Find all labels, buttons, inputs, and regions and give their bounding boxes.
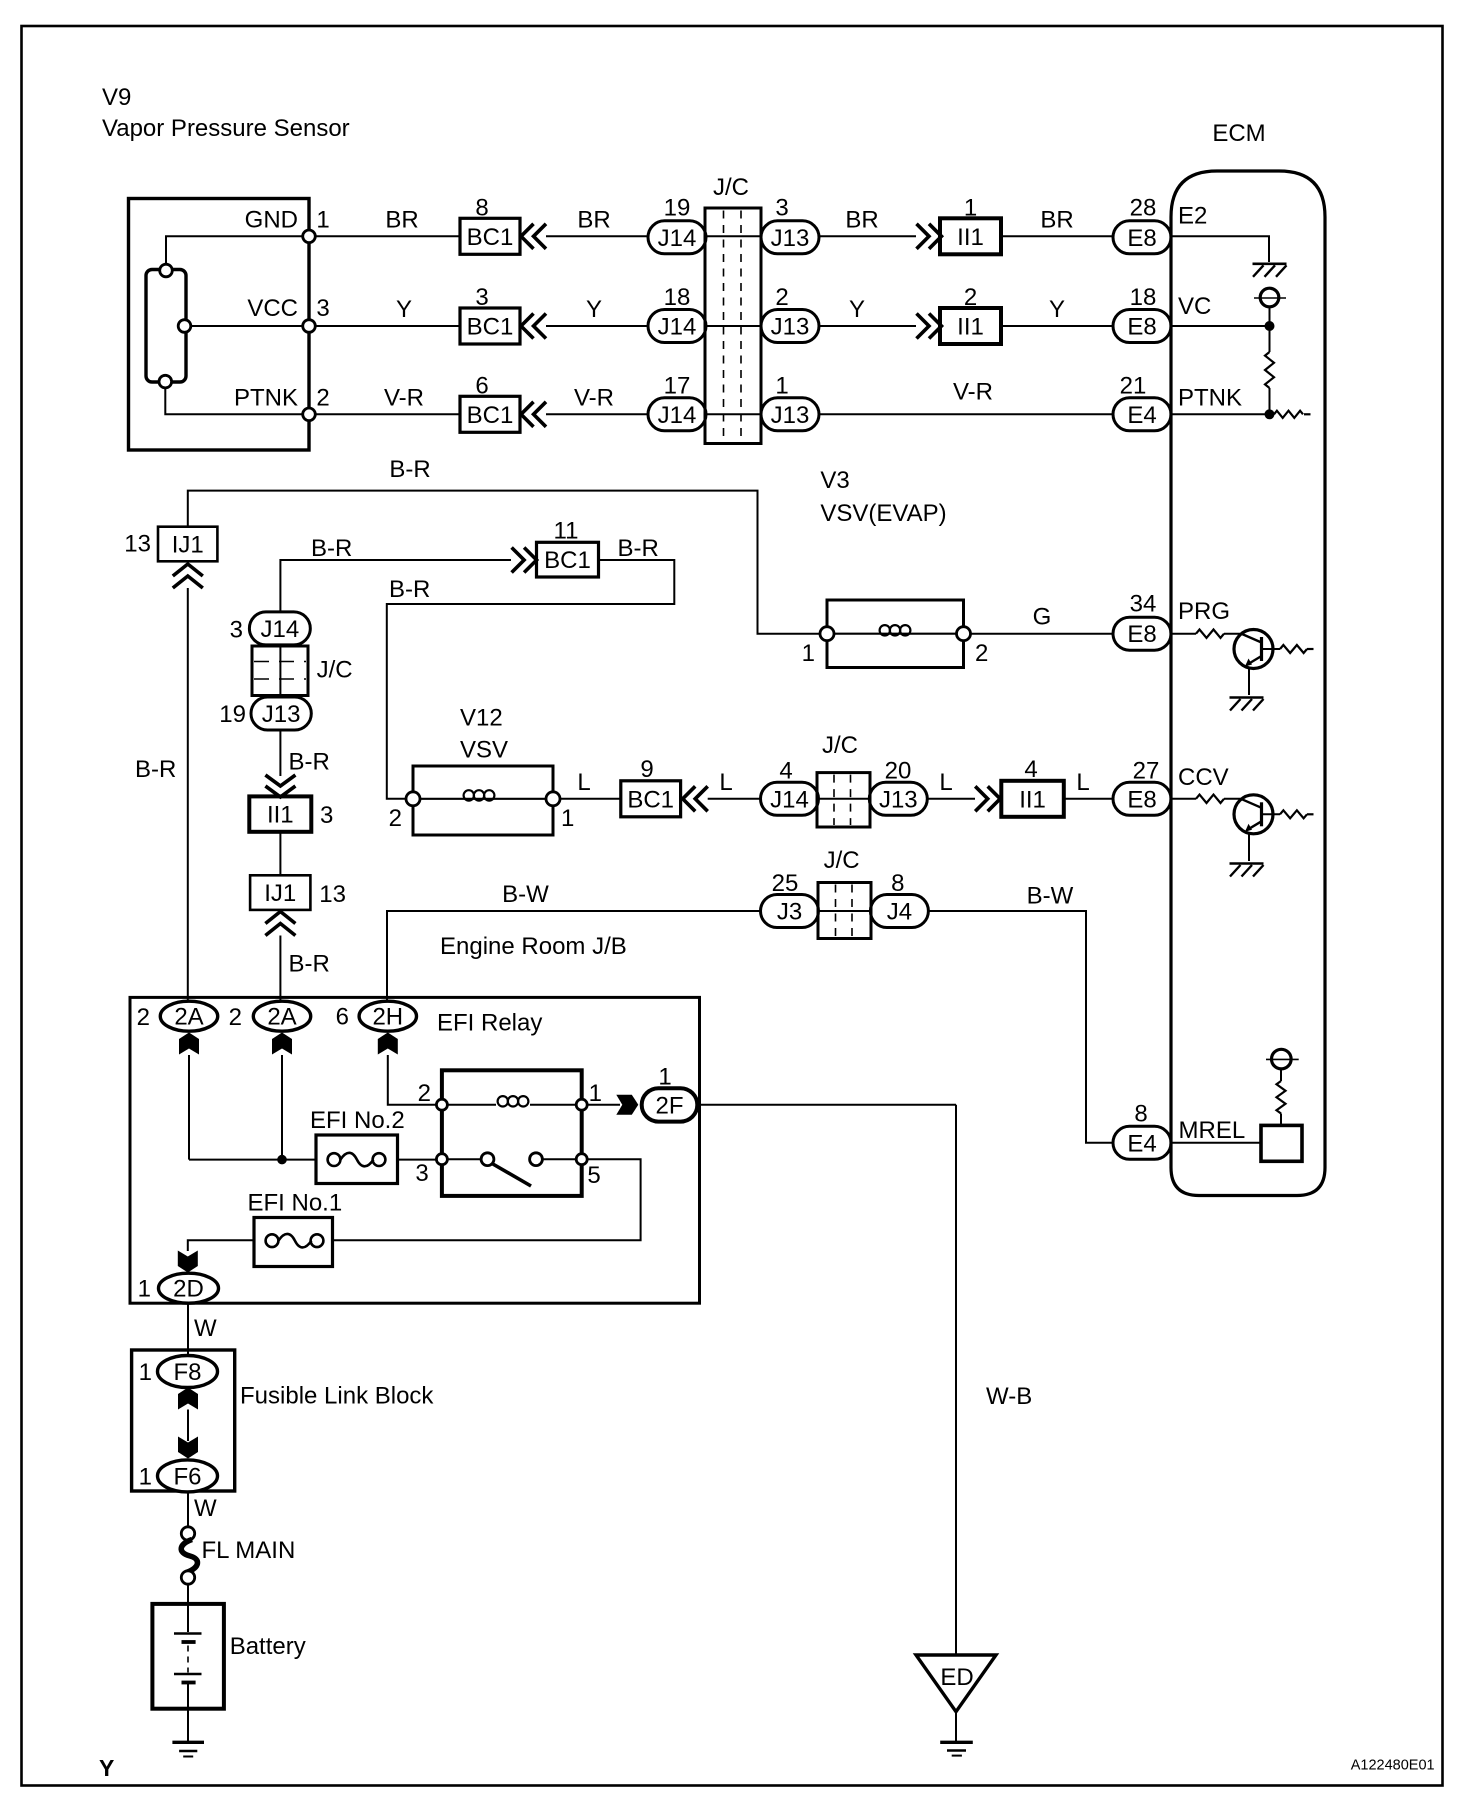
svg-text:VCC: VCC [247,295,298,322]
sensor element [146,270,186,383]
connector J13 pin 2 [761,310,819,343]
ground PRG [1230,696,1264,699]
svg-text:B-W: B-W [1027,883,1074,910]
svg-text:J/C: J/C [822,732,858,759]
battery plate long 1 [174,1632,202,1634]
relay coil [498,1096,508,1106]
svg-text:1: 1 [561,805,574,832]
wire IJ1 down to 2A [187,588,189,1000]
wire L J13 to II1 [927,798,975,800]
svg-text:FL MAIN: FL MAIN [202,1537,296,1564]
svg-text:1: 1 [775,373,788,400]
svg-text:BC1: BC1 [467,314,514,341]
connector J14 pin 18 [648,310,706,343]
svg-text:2H: 2H [372,1004,403,1031]
wire L II1 to E8 [1064,798,1113,800]
connector J14 pin 17 [648,398,706,431]
wire V-R BC1 to J14 [546,413,648,415]
svg-text:L: L [1076,769,1089,796]
connector E8 pin 18 [1113,310,1171,343]
svg-text:1: 1 [139,1359,152,1386]
svg-text:1: 1 [316,207,329,234]
svg-text:Battery: Battery [230,1633,306,1660]
relay terminal 3 [436,1154,447,1165]
wire PRG to transistor [1224,633,1241,635]
svg-text:18: 18 [664,284,691,311]
wire BR BC1 to J14 [546,235,648,237]
fuse EFI No.2 box [316,1135,398,1184]
junction connector J/C mid [252,646,308,696]
resistor PTNK internal [1274,411,1303,418]
wire Y II1 to E8 [1001,325,1113,327]
splice BC1 pin 6 [460,396,520,432]
svg-text:BR: BR [1040,207,1073,234]
svg-text:2: 2 [137,1004,150,1031]
wire sensor VCC [191,325,303,327]
wire EFI No.2 feed [189,1159,316,1161]
splice BC1 pin 8 [460,218,520,254]
coil V12 [420,798,546,800]
svg-text:V-R: V-R [953,379,993,406]
connector II1 pin 3 [249,796,311,831]
svg-text:B-R: B-R [135,756,176,783]
battery plate long 2 [174,1673,202,1675]
arrow into II1-4 [975,786,988,811]
svg-text:J13: J13 [771,314,810,341]
node PTNK junction [1265,409,1275,419]
fuse EFI No.2 element [328,1153,341,1166]
svg-text:II1: II1 [957,224,984,251]
svg-text:BR: BR [385,207,418,234]
connector 2A first [160,1001,217,1031]
wire PRG emitter [1248,668,1250,695]
svg-text:J/C: J/C [713,174,749,201]
svg-text:E2: E2 [1178,203,1207,230]
arrow 2H [378,1033,398,1055]
svg-text:E8: E8 [1127,225,1156,252]
svg-text:J3: J3 [777,899,802,926]
svg-text:34: 34 [1130,591,1157,618]
terminal V3 pin2 [957,627,971,641]
sensor element terminal right [178,320,191,333]
svg-text:J14: J14 [770,786,809,813]
svg-text:B-W: B-W [502,881,549,908]
junction connector J/C right [817,773,870,827]
relay coil wire [447,1104,496,1106]
svg-text:J14: J14 [658,402,697,429]
svg-text:IJ1: IJ1 [172,532,204,559]
svg-text:27: 27 [1133,758,1160,785]
connector J13 pin 20 [869,782,927,815]
sensor element terminal top [160,264,173,277]
wire J14-3 up and right to BC1-11 [280,560,511,612]
wire W-B down [955,1105,957,1655]
svg-text:2: 2 [775,284,788,311]
svg-text:3: 3 [415,1160,428,1187]
terminal V12 pin2 [406,792,420,806]
solenoid V3 box [827,600,964,668]
fusible link block box [132,1350,235,1491]
svg-text:2: 2 [964,284,977,311]
node 2A junction [277,1155,287,1165]
connector E8 pin 28 [1113,221,1171,254]
connector J3 pin 25 [761,895,819,928]
svg-text:3: 3 [475,284,488,311]
svg-text:6: 6 [336,1004,349,1031]
svg-text:Y: Y [396,296,412,323]
svg-text:BR: BR [845,207,878,234]
svg-text:2A: 2A [267,1004,296,1031]
svg-text:EFI Relay: EFI Relay [437,1010,542,1037]
wire BR II1 to E8 [1001,235,1113,237]
VC supply circle [1260,288,1279,307]
wire MREL resistor up [1280,1069,1282,1081]
fuse EFI No.1 box [254,1218,333,1267]
arrow below F8 [178,1388,198,1410]
wire VC internal [1171,325,1265,327]
wire ED to ground [955,1712,957,1741]
wire B-R long run [188,491,821,634]
svg-text:VC: VC [1178,293,1211,320]
relay contact post b [530,1153,543,1166]
svg-text:J13: J13 [771,402,810,429]
transistor PRG driver [1234,630,1273,669]
svg-text:3: 3 [230,617,243,644]
svg-text:F6: F6 [173,1463,201,1490]
wire F6 down [187,1492,189,1527]
terminal V3 pin1 [820,627,834,641]
wire CCV internal [1171,798,1196,800]
svg-text:J14: J14 [658,314,697,341]
battery plate short 1 [182,1640,196,1644]
resistor MREL [1277,1081,1286,1114]
svg-text:2: 2 [229,1004,242,1031]
splice BC1 pin 3 [460,308,520,344]
svg-text:J14: J14 [260,616,299,643]
relay contact wire [447,1158,481,1160]
connector J13 pin 3 [761,221,819,254]
svg-text:21: 21 [1120,373,1147,400]
svg-text:2: 2 [975,640,988,667]
relay switch blade [492,1164,531,1187]
wire IJ1 lower down to 2A [279,936,281,1001]
arrow into II1 row2 [917,314,930,339]
fusible link FL MAIN [181,1527,194,1540]
svg-text:EFI No.1: EFI No.1 [248,1190,343,1217]
svg-text:Engine Room J/B: Engine Room J/B [440,933,627,960]
wire VC circle to node [1269,307,1271,326]
svg-text:V9: V9 [102,84,131,111]
ground E2 internal [1253,262,1287,265]
wire BC1-11 to V12 VSV [387,560,675,799]
wire PRG collector [1262,648,1281,650]
svg-text:GND: GND [245,207,298,234]
wire 2A1 down [188,1055,190,1160]
svg-text:BC1: BC1 [467,402,514,429]
svg-text:2: 2 [316,385,329,412]
connector IJ1 pin 13 upper [158,527,217,562]
arrow into BC1-11 [512,548,524,573]
svg-text:2D: 2D [173,1276,204,1303]
svg-text:20: 20 [885,758,912,785]
wire BR sensor to BC1 [315,235,460,237]
wire through J/C row2 [706,325,761,327]
connector E4 pin 8 [1113,1126,1171,1159]
svg-text:MREL: MREL [1179,1117,1246,1144]
svg-text:11: 11 [554,518,579,545]
svg-text:J14: J14 [658,225,697,252]
connector J14 pin 4 [761,782,819,815]
sensor pin circle 2 [303,408,316,421]
svg-text:9: 9 [640,756,653,783]
wire L BC1 to J14 [708,798,761,800]
svg-text:B-R: B-R [389,456,430,483]
arrow above F6 [178,1437,198,1459]
svg-text:V3: V3 [820,467,849,494]
splice BC1 pin 11 [537,542,599,577]
svg-text:PRG: PRG [1178,598,1230,625]
arrow into II1 row1 [917,224,930,249]
sensor V9 box [129,199,310,451]
wire battery internal top [187,1605,189,1632]
svg-text:13: 13 [124,531,151,558]
svg-text:ECM: ECM [1212,120,1265,147]
svg-text:6: 6 [475,373,488,400]
connector J4 pin 8 [870,895,928,928]
connector 2H [359,1001,416,1031]
connector J14 pin 3 [249,612,310,645]
svg-text:2F: 2F [655,1092,683,1119]
wire 2D to F8 [187,1303,189,1356]
svg-text:28: 28 [1130,195,1157,222]
connector E4 pin 21 [1113,398,1171,431]
svg-text:17: 17 [664,373,691,400]
svg-text:W: W [194,1315,217,1342]
svg-text:1: 1 [964,195,977,222]
resistor CCV base [1196,795,1224,803]
svg-text:W: W [194,1495,217,1522]
svg-text:CCV: CCV [1178,764,1229,791]
svg-text:ED: ED [940,1664,973,1691]
wire 2F to W-B [697,1104,956,1106]
svg-text:B-R: B-R [389,576,430,603]
fuse EFI No.1 element [266,1234,279,1247]
svg-text:PTNK: PTNK [1178,385,1242,412]
svg-text:2A: 2A [174,1004,203,1031]
svg-text:3: 3 [775,195,788,222]
svg-text:8: 8 [475,195,488,222]
svg-text:II1: II1 [267,802,294,829]
svg-text:BC1: BC1 [544,547,591,574]
wire F8 to F6 [187,1410,189,1442]
wire fuse No.1 to 2D [188,1240,254,1251]
ECM U1 outline [1171,171,1325,1196]
wire through J/C mid [279,645,281,697]
connector II1 pin 2 [940,308,1001,344]
svg-text:Y: Y [99,1755,114,1781]
svg-text:B-R: B-R [289,951,330,978]
connector 2F [642,1088,698,1121]
wire V-R J13 to E4 [819,413,1113,415]
wire II1-3 to IJ1-13 [279,832,281,876]
wire fuse No.2 to relay [398,1159,437,1161]
svg-text:VSV: VSV [460,737,508,764]
wire CCV to transistor [1224,798,1241,800]
svg-text:Y: Y [1049,296,1065,323]
ground battery [172,1741,204,1744]
svg-text:25: 25 [772,870,799,897]
splice BC1 pin 9 [621,781,681,817]
wire L V12 to BC1 [560,798,621,800]
arrow 2A second [272,1033,292,1055]
resistor CCV collector [1280,810,1307,818]
wire Y BC1 to J14 [546,325,648,327]
wire MREL box up [1280,1114,1282,1126]
wire MREL internal [1171,1142,1261,1144]
svg-text:VSV(EVAP): VSV(EVAP) [820,500,946,527]
battery plate short 2 [182,1681,196,1685]
svg-text:19: 19 [664,195,691,222]
sensor pin circle 3 [303,320,316,333]
svg-text:J13: J13 [262,701,301,728]
ground ED [940,1741,973,1744]
svg-text:L: L [719,769,732,796]
wire E2 internal [1171,236,1269,262]
connector 2A second [253,1001,310,1031]
svg-text:Fusible Link Block: Fusible Link Block [240,1383,434,1410]
connector E8 pin 27 [1113,782,1171,815]
svg-text:B-R: B-R [618,535,659,562]
wire CCV emitter [1248,833,1250,861]
wire B-W J4 to E4 [928,911,1113,1143]
MREL supply circle [1272,1049,1292,1069]
svg-text:A122480E01: A122480E01 [1351,1758,1435,1774]
wire relay 5 to fuse No.1 [333,1159,641,1240]
svg-text:B-R: B-R [311,535,352,562]
EFI relay box [442,1070,582,1196]
svg-text:E8: E8 [1127,786,1156,813]
wire battery to ground [187,1684,189,1741]
svg-text:PTNK: PTNK [234,385,298,412]
svg-text:J/C: J/C [317,657,353,684]
battery box [152,1604,224,1709]
svg-text:E4: E4 [1127,402,1156,429]
connector II1 pin 1 [940,218,1001,254]
svg-text:IJ1: IJ1 [264,880,296,907]
ground point ED [916,1655,996,1712]
svg-text:II1: II1 [957,314,984,341]
svg-text:19: 19 [219,701,246,728]
svg-text:G: G [1033,604,1052,631]
svg-text:3: 3 [316,295,329,322]
svg-text:13: 13 [319,881,346,908]
svg-text:8: 8 [891,870,904,897]
svg-text:8: 8 [1134,1101,1147,1128]
transistor CCV driver [1234,795,1273,834]
svg-text:J4: J4 [887,899,912,926]
wire relay 1 to 2F [587,1104,620,1106]
terminal V12 pin1 [546,792,560,806]
connector F6 [158,1460,218,1492]
relay terminal 5 [576,1154,587,1165]
wire B-W 2H to J3 [387,911,761,1000]
wire 2A2 down [281,1055,283,1160]
svg-text:Y: Y [586,296,602,323]
wire through J/C low [820,910,871,912]
svg-text:1: 1 [138,1276,151,1303]
relay terminal 2 [436,1099,447,1110]
solenoid V12 box [413,766,553,835]
connector II1 pin 4 [1001,781,1064,817]
svg-text:V-R: V-R [574,385,614,412]
junction connector J/C low [818,883,871,939]
wire V-R sensor to BC1 [315,413,460,415]
svg-text:J13: J13 [879,786,918,813]
svg-text:1: 1 [139,1464,152,1491]
svg-text:Vapor Pressure Sensor: Vapor Pressure Sensor [102,115,350,142]
svg-text:V-R: V-R [384,385,424,412]
svg-text:4: 4 [779,758,792,785]
svg-text:F8: F8 [173,1359,201,1386]
svg-text:E8: E8 [1127,621,1156,648]
svg-text:1: 1 [589,1080,602,1107]
wire PRG internal [1171,633,1196,635]
svg-text:2: 2 [389,805,402,832]
svg-text:18: 18 [1130,284,1157,311]
connector J13 pin 19 [251,697,311,730]
connector E8 pin 34 [1113,617,1171,650]
relay terminal 1 [576,1099,587,1110]
arrow 2F [616,1095,638,1115]
relay contact post a [481,1153,494,1166]
connector 2D [159,1273,219,1303]
wire VC node down [1269,326,1271,352]
svg-text:V12: V12 [460,705,503,732]
svg-text:BR: BR [577,207,610,234]
svg-text:3: 3 [320,802,333,829]
wire BR J13 to II1 [819,235,916,237]
arrow below IJ1 upper [173,564,203,576]
wire Y J13 to II1 [819,325,916,327]
node VC junction [1265,321,1275,331]
wire through J/C row3 [706,413,761,415]
wire resistor to PTNK node [1269,388,1271,414]
arrow into II1-3 [265,775,295,786]
connector IJ1 pin 13 lower [250,875,310,910]
svg-text:J/C: J/C [824,847,860,874]
arrow below IJ1 lower [265,912,295,924]
svg-text:L: L [939,769,952,796]
svg-text:B-R: B-R [289,749,330,776]
svg-text:BC1: BC1 [467,224,514,251]
wire PTNK internal [1171,413,1265,415]
svg-text:1: 1 [658,1064,671,1091]
coil V3 [834,633,956,635]
svg-text:4: 4 [1024,756,1037,783]
resistor VC-PTNK [1265,352,1274,388]
wire through J/C row1 [706,235,761,237]
MREL driver box [1261,1125,1302,1161]
svg-text:W-B: W-B [986,1383,1032,1410]
svg-text:II1: II1 [1019,786,1046,813]
svg-text:1: 1 [802,640,815,667]
wire FL MAIN to battery [187,1584,189,1605]
battery cell link [187,1646,189,1673]
svg-text:Y: Y [849,296,865,323]
wire sensor GND [166,236,303,264]
wire Y sensor to BC1 [315,325,460,327]
resistor PRG base [1196,630,1224,638]
